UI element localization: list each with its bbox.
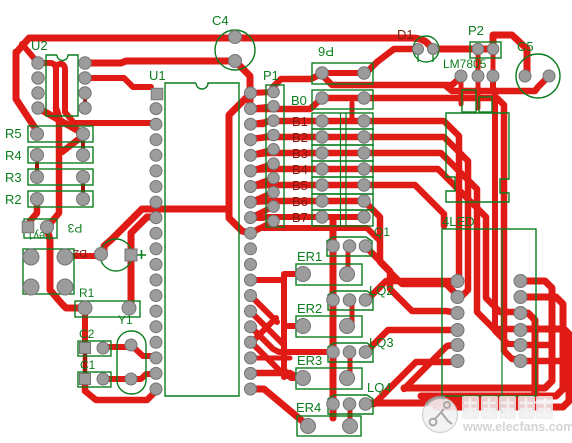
D2 pad cathode <box>125 249 137 261</box>
wire B3 net <box>251 153 521 330</box>
U1 pin1 square pad <box>151 88 163 100</box>
wire ER3 stub <box>284 373 301 379</box>
Y1 pad bottom <box>125 373 137 385</box>
svg-text:B5: B5 <box>292 178 308 193</box>
wire LM7805 pin2 down <box>476 76 481 108</box>
ER2 pad R <box>340 319 355 334</box>
LQ4 pad 1 <box>327 398 340 411</box>
wire LED loop1 <box>404 281 552 388</box>
R1 pad L <box>78 301 92 315</box>
jumper B7 pad R <box>358 211 370 223</box>
jumper B1 pad R <box>358 115 370 127</box>
wire U1 pin26 to ER3 <box>251 312 300 378</box>
svg-text:B0: B0 <box>291 93 307 108</box>
LM7805 pad 2 <box>472 70 484 82</box>
wire U2 pin1 branch <box>22 44 38 63</box>
svg-text:C1: C1 <box>80 358 96 372</box>
R5 pad L <box>31 128 44 141</box>
C2 round pad <box>97 342 109 354</box>
transistor LQ4 outline <box>328 395 373 414</box>
Q1 pad 1 <box>327 240 340 253</box>
capacitor C4 outline <box>215 30 255 70</box>
R1 pad R <box>122 301 136 315</box>
ER2 pad L <box>296 319 311 334</box>
LQ2 pad 2 <box>343 294 356 307</box>
P3 pad 1 <box>23 249 39 265</box>
capacitor C1 outline <box>78 372 111 387</box>
jumper B4 outline <box>312 161 373 177</box>
svg-text:LM7805: LM7805 <box>443 57 487 71</box>
resistor ER1 outline <box>296 264 362 285</box>
wire D2 cathode net <box>104 97 250 251</box>
transistor Q1 outline <box>327 237 372 256</box>
D1 pin ticks <box>418 55 433 62</box>
wire LM7805 pin1 down <box>459 76 464 104</box>
key1 outline <box>24 219 57 238</box>
transistor LQ3 outline <box>328 343 373 362</box>
LQ3 pad 3 <box>359 346 372 359</box>
svg-text:ER2: ER2 <box>297 301 322 316</box>
wire B0 row stub <box>350 103 355 120</box>
resistor ER4 outline <box>297 416 361 436</box>
U2 outline <box>46 55 78 116</box>
wire Q1 base stub <box>346 246 351 272</box>
wire R3-R2 right stub <box>81 177 85 199</box>
wire U1 pin24 cross diag <box>251 318 276 343</box>
wire R2 to key1 <box>30 199 37 227</box>
resistor R1 outline <box>75 301 140 317</box>
wire R4-R3 left stub <box>35 155 39 177</box>
jumper B1 pad L <box>316 115 328 127</box>
P3 pad 3 <box>23 279 39 295</box>
LQ3 pad 1 <box>327 346 340 359</box>
R5 pad R <box>77 128 90 141</box>
wire ER1 stub <box>284 271 301 277</box>
wire LED loop3 <box>370 313 535 403</box>
jumper B1 outline <box>312 113 373 129</box>
resistor ER3 outline <box>296 368 362 389</box>
wire LQ4 to LED6 <box>366 361 457 404</box>
key1 square pad <box>22 221 34 233</box>
wire C2-C1 stub <box>83 355 88 374</box>
svg-text:D2: D2 <box>73 247 87 259</box>
P3 pad 2 <box>57 249 73 265</box>
key1 round pad <box>41 221 54 234</box>
LQ2 pad 3 <box>359 294 372 307</box>
svg-text:P6: P6 <box>318 44 334 59</box>
wire U1 pin31 fan <box>251 228 380 260</box>
wire Q1 to LED3 <box>365 246 457 313</box>
LM7805 pad 1 <box>455 70 467 82</box>
wire B0 net <box>251 98 520 359</box>
svg-text:LQ2: LQ2 <box>369 283 394 298</box>
wire Y1 to U1 pin18 <box>131 345 153 356</box>
U1 right pads <box>245 87 257 395</box>
regulator LM7805 tab2 <box>479 97 492 112</box>
jumper P6 pad R <box>358 67 370 79</box>
inductor L outline <box>446 113 509 202</box>
svg-text:C2: C2 <box>79 327 95 341</box>
U2 left pads <box>32 57 44 114</box>
ER4 pad R <box>343 419 358 434</box>
wire C4 to U1 pin40 <box>235 61 250 108</box>
regulator LM7805 tab1 <box>462 90 476 112</box>
Q1 pad 2 <box>343 240 356 253</box>
wire LM7805 pin3 down <box>493 76 521 345</box>
svg-text:B3: B3 <box>292 146 308 161</box>
svg-text:R5: R5 <box>5 126 22 141</box>
wire U1-P1 ladder <box>251 92 274 233</box>
ER1 pad R <box>340 267 355 282</box>
svg-text:ER4: ER4 <box>296 400 321 415</box>
jumper B2 outline <box>312 129 373 145</box>
op IC U1 outline <box>165 83 239 396</box>
R4 pad L <box>31 149 44 162</box>
C1 square pad <box>80 374 91 385</box>
jumper B7 pad L <box>316 211 328 223</box>
C1 round pad <box>97 373 109 385</box>
watermark brand glyphs <box>462 396 553 419</box>
wire U2 leg to U1 pin3 <box>65 112 153 123</box>
wire LQ2 base stub <box>350 300 355 324</box>
wire LED loop2 <box>421 297 563 396</box>
wire U1 pin25 to LQ3 <box>251 327 330 352</box>
wire Y1 to U1 pin19 <box>131 374 153 379</box>
R2 pad R <box>77 193 90 206</box>
svg-text:P3: P3 <box>67 221 82 235</box>
wire P6 to LM7805 in <box>321 74 461 85</box>
jumper B3 pad L <box>316 147 328 159</box>
svg-text:R3: R3 <box>5 170 22 185</box>
wire R5-R4 right stub <box>81 134 85 155</box>
diode D2 outline <box>100 239 132 271</box>
U1 left pads <box>150 103 162 395</box>
resistor R3 outline <box>28 169 93 185</box>
D2 plus mark <box>137 250 146 259</box>
wire LED loop4 <box>436 329 569 407</box>
svg-text:LQ3: LQ3 <box>369 335 394 350</box>
wire P2 pin2 to LM7805 <box>491 49 496 74</box>
svg-text:ER3: ER3 <box>297 353 322 368</box>
R4 pad R <box>77 149 90 162</box>
C2 square pad <box>80 343 91 354</box>
jumper B5 pad L <box>316 179 328 191</box>
jumper B2 pad R <box>358 131 370 143</box>
wire B7 net <box>251 217 364 218</box>
wire C2 to Y1 <box>103 344 131 350</box>
jumper B3 pad R <box>358 147 370 159</box>
Y1 pad top <box>125 339 137 351</box>
connector P1 outline <box>266 85 284 227</box>
wire U2 pin7 to U1 pin1 <box>85 78 151 87</box>
svg-text:B1: B1 <box>292 114 308 129</box>
svg-text:B7: B7 <box>292 210 308 225</box>
wire LQ3 to LED4 <box>366 330 457 352</box>
wire U2 left octagon <box>16 52 37 131</box>
wire B2 net <box>251 137 468 297</box>
wire C5 to LM7805 rail <box>446 76 549 91</box>
jumper B6 outline <box>312 194 373 210</box>
D2 pad anode <box>95 248 108 261</box>
P2 pad 1 <box>472 43 484 55</box>
jumper B2 pad L <box>316 131 328 143</box>
wire B6 net <box>251 201 458 296</box>
svg-text:R4: R4 <box>5 148 22 163</box>
jumper B5 pad R <box>358 179 370 191</box>
U2 right pads <box>79 57 91 114</box>
svg-text:U1: U1 <box>149 68 166 83</box>
crystal Y1 outline <box>117 331 146 394</box>
wire U1 pin19 to ER3 <box>251 373 302 376</box>
svg-text:R1: R1 <box>79 286 95 300</box>
jumper B0 pad R <box>358 92 370 104</box>
wire U1 pin16 diag to ER3 <box>251 342 282 373</box>
jumper P6 pad L <box>316 67 328 79</box>
wire LQ2 to LED1 <box>367 281 457 300</box>
svg-text:LQ4: LQ4 <box>367 380 392 395</box>
wire B1 net <box>251 121 459 281</box>
jumper B4 pad R <box>358 163 370 175</box>
wire U1 pin27 diag <box>251 296 277 322</box>
4LED left pads <box>451 275 464 368</box>
D1 pad 1 <box>413 44 424 55</box>
Q1 pad 3 <box>359 240 372 253</box>
wire Q1-LQ4 column <box>330 219 337 418</box>
wire LED6 tie <box>521 358 563 365</box>
resistor R2 outline <box>28 191 93 207</box>
wire ER bus vertical <box>281 276 287 377</box>
svg-text:B4: B4 <box>292 162 308 177</box>
wire U1 pin28 to ER bus <box>251 277 284 283</box>
svg-text:B6: B6 <box>292 194 308 209</box>
ER1 pad L <box>296 267 311 282</box>
wire bus to LED5 <box>404 345 453 389</box>
svg-text:P2: P2 <box>468 23 484 38</box>
svg-text:B2: B2 <box>292 130 308 145</box>
wire LQ4 base stub <box>348 404 353 424</box>
jumper B6 pad L <box>316 195 328 207</box>
P1 pads <box>268 86 280 227</box>
resistor ER2 outline <box>296 316 362 337</box>
wire LQ3 base stub <box>348 352 353 376</box>
R3 pad R <box>77 171 90 184</box>
wire U1 pin9 to D2 plus to R1 <box>129 217 153 307</box>
svg-text:www.elecfans.com: www.elecfans.com <box>462 420 572 434</box>
wire B4 net <box>251 169 521 313</box>
R3 pad L <box>31 171 44 184</box>
jumper B0 outline <box>312 90 373 109</box>
wire B7 to Q1 <box>330 219 336 244</box>
wire P3 to D2 anode <box>65 253 100 259</box>
C4 pad 1 <box>229 31 242 44</box>
watermark logo circle <box>423 397 458 432</box>
jumper B5 outline <box>312 177 373 194</box>
connector P2 outline <box>470 42 501 58</box>
transistor LQ2 outline <box>328 291 373 310</box>
LQ4 pad 2 <box>343 398 356 411</box>
R2 pad L <box>31 193 44 206</box>
svg-text:P1: P1 <box>263 68 279 83</box>
jumper column inner lines <box>341 113 347 225</box>
wire top bus VCC <box>16 35 527 74</box>
svg-text:C5: C5 <box>517 39 534 54</box>
jumper B4 pad L <box>316 163 328 175</box>
wire U1 pin21 to ER4 <box>251 389 307 425</box>
LQ3 pad 2 <box>343 346 356 359</box>
wire R5 to leg junction <box>62 135 84 152</box>
capacitor C2 outline <box>78 341 111 356</box>
4LED right pads <box>514 275 527 368</box>
C5 pad 2 <box>543 70 555 82</box>
wire ER2 stub <box>284 323 301 329</box>
wire D1 to P6 <box>368 49 418 71</box>
svg-text:R2: R2 <box>5 192 22 207</box>
jumper B0 pad L <box>316 92 328 104</box>
wire U2 pin6 stub <box>83 93 87 108</box>
wire U2 pin5 to R5 <box>38 108 84 134</box>
wire C1 to U1 pin20 <box>85 384 156 400</box>
svg-text:D1: D1 <box>397 27 414 42</box>
ER3 pad R <box>340 371 355 386</box>
resistor R5 outline <box>28 126 93 142</box>
ER4 pad L <box>301 419 316 434</box>
wire C1 to Y1 <box>103 376 131 382</box>
LQ4 pad 3 <box>359 398 372 411</box>
P2 pad 2 <box>487 43 499 55</box>
jumper B3 outline <box>312 145 373 161</box>
LM7805 pad 3 <box>487 70 499 82</box>
svg-text:4LED: 4LED <box>442 214 475 229</box>
wire U1 pin23 stub <box>251 356 290 361</box>
jumper B6 pad R <box>358 195 370 207</box>
svg-text:ER1: ER1 <box>297 249 322 264</box>
wire U2 pin8 to C4 <box>85 61 233 63</box>
wire LED5 tie <box>521 342 552 349</box>
svg-text:U2: U2 <box>31 38 48 53</box>
wire key1 through P3 to R1 <box>47 228 83 308</box>
LQ2 pad 1 <box>327 294 340 307</box>
display inner line <box>501 230 503 415</box>
diode D1 outline <box>413 36 439 62</box>
C5 pad 1 <box>519 70 531 82</box>
jumper B7 outline <box>312 210 373 226</box>
wire P1 pin1 to P6 <box>273 74 321 93</box>
wire P2 pin1 to LM7805 <box>476 49 481 74</box>
svg-text:C4: C4 <box>212 13 229 28</box>
ER3 pad L <box>296 371 311 386</box>
wire B5 net <box>251 185 444 226</box>
wire R1 to C2 <box>82 308 88 344</box>
P3 pad 4 <box>57 279 73 295</box>
wire P6 jumper bar <box>321 70 364 76</box>
D1 pad 2 <box>428 44 439 55</box>
C4 pad 2 <box>229 55 242 68</box>
svg-text:Q1: Q1 <box>374 225 390 239</box>
connector P3 outline <box>23 249 74 294</box>
jumper P6 outline <box>312 63 373 84</box>
wire U2 inner loop <box>38 63 65 112</box>
resistor R4 outline <box>28 147 93 163</box>
display 4LED outline <box>442 229 536 396</box>
capacitor C5 outline <box>516 54 560 98</box>
wire U2 leg to key1 <box>47 108 59 228</box>
